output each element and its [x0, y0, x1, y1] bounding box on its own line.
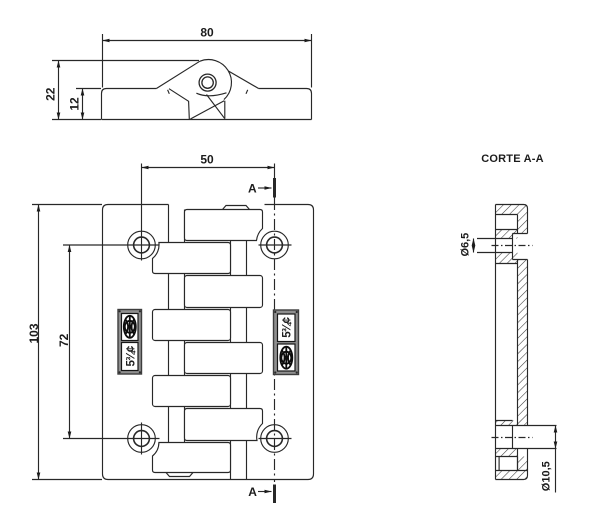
plate outline left part	[103, 205, 247, 480]
svg-text:12: 12	[67, 97, 81, 111]
svg-text:103: 103	[27, 323, 41, 343]
countersink top hole	[513, 234, 528, 260]
plate outline right part	[247, 205, 314, 480]
section outline	[495, 205, 497, 480]
right neck lines	[230, 241, 232, 480]
left slope of knuckle	[156, 61, 200, 88]
wrap crossing line 2	[207, 95, 225, 119]
knuckle bar 1 (right, hole fillet)	[185, 210, 263, 241]
knuckle bar 7 (right, hole fillet)	[185, 409, 263, 441]
dimension 22	[58, 61, 60, 120]
svg-text:Ø10,5: Ø10,5	[541, 461, 553, 491]
knuckle bar 5 (right)	[185, 343, 263, 374]
wrap edge left under barrel	[169, 89, 189, 119]
svg-text:80: 80	[200, 26, 214, 40]
dimension dia 10.5	[555, 426, 557, 449]
centerline bottom hole	[492, 437, 533, 439]
knuckle bar 8 (left, hole fillet)	[153, 443, 231, 473]
dimension 80	[103, 40, 312, 42]
section line A-A	[274, 199, 276, 482]
svg-text:CORTE A-A: CORTE A-A	[481, 153, 544, 165]
label plate right	[274, 310, 299, 375]
hinge leaf bar left (edge view)	[107, 88, 157, 90]
hatched areas	[496, 205, 528, 480]
svg-text:5¾¢: 5¾¢	[125, 345, 137, 366]
pin hole circles	[199, 74, 216, 91]
svg-text:A: A	[248, 485, 257, 499]
knuckle bar 6 (left)	[153, 376, 231, 407]
arrow A bottom	[258, 491, 272, 493]
bottom bump	[166, 473, 193, 477]
right slope of knuckle	[228, 71, 258, 89]
knuckle bar 3 (right)	[185, 276, 263, 308]
dimension 12	[82, 89, 84, 120]
top bump	[223, 206, 250, 210]
witness tick left	[168, 90, 170, 94]
barrel bottom arc	[196, 93, 226, 96]
svg-text:5¾¢: 5¾¢	[281, 316, 293, 337]
bottom edge of leaves	[102, 119, 312, 121]
svg-text:Ø6,5: Ø6,5	[460, 233, 472, 257]
hole 6.5 lines + extensions	[477, 239, 513, 253]
svg-text:22: 22	[43, 87, 57, 101]
label plate left	[118, 310, 142, 375]
wrap edge right vertical	[224, 101, 226, 119]
dimension dia 6.5	[473, 239, 475, 253]
hole top-left	[63, 164, 160, 261]
web/rim inner line	[517, 215, 519, 471]
svg-text:72: 72	[57, 333, 71, 347]
hinge leaf bar right (edge view)	[259, 89, 312, 120]
hole bottom-right	[259, 425, 292, 453]
wrap crossing line 1	[190, 101, 224, 119]
hole top-right	[259, 231, 292, 259]
barrel arc of knuckle	[200, 60, 232, 100]
dimension 50	[142, 167, 275, 169]
hole bottom-left	[63, 423, 160, 455]
dimension 72	[69, 245, 71, 439]
top recess lines	[496, 215, 518, 230]
svg-text:A: A	[248, 181, 257, 195]
svg-text:50: 50	[200, 153, 214, 167]
dimension 103	[38, 205, 40, 480]
witness tick right	[246, 90, 248, 94]
arrow A top	[258, 187, 272, 189]
knuckle bar 2 (left, hole fillet)	[153, 243, 231, 274]
left neck lines	[168, 205, 170, 456]
bottom hole block lines	[496, 420, 513, 422]
knuckle bar 4 (left)	[153, 310, 231, 341]
centerline top hole	[492, 245, 533, 247]
